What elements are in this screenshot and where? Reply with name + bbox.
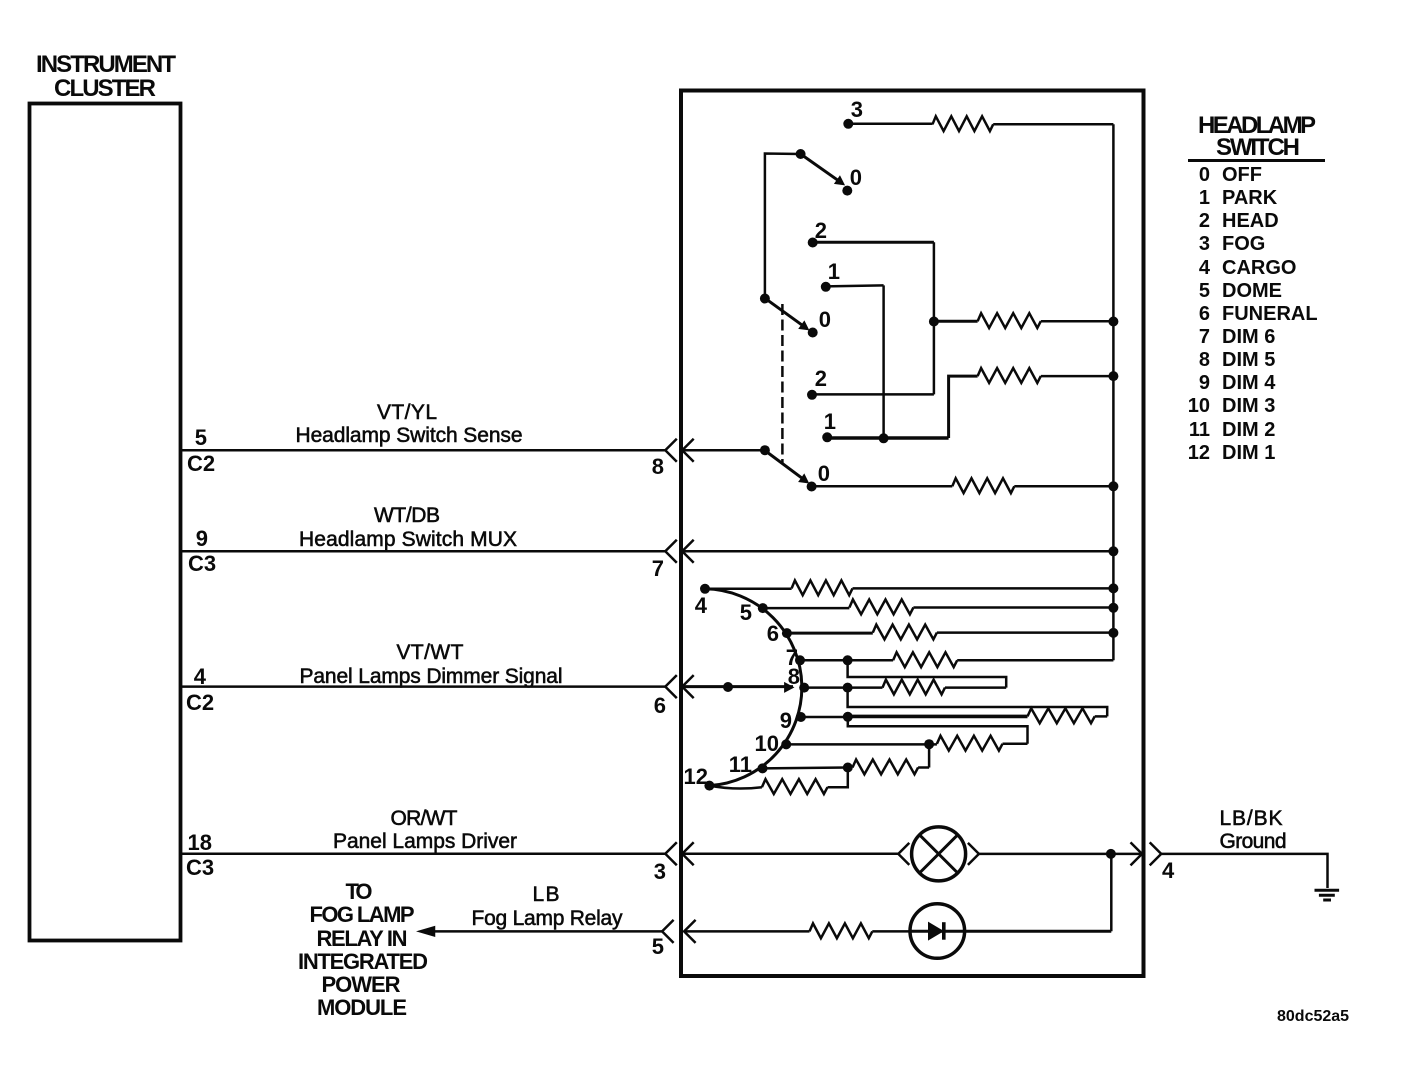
wire R4 to bus — [1014, 481, 1118, 491]
wire R13 right riser to tap11 — [828, 768, 848, 788]
svg-text:0: 0 — [818, 461, 830, 486]
svg-text:C2: C2 — [186, 690, 214, 715]
pin 5 label — [195, 425, 207, 450]
legend switch positions list — [1188, 164, 1318, 464]
switch arm 1 blade — [801, 154, 845, 185]
svg-text:RELAY IN: RELAY IN — [317, 926, 408, 951]
resistor R12 (DIM 2) — [853, 760, 919, 775]
label LB/BK — [1220, 807, 1283, 830]
svg-text:8: 8 — [652, 454, 664, 479]
svg-text:0: 0 — [1199, 164, 1210, 186]
resistor R3 (PARK) — [978, 368, 1041, 383]
contact 0c node — [807, 461, 830, 492]
lamp right chevron — [968, 843, 979, 865]
svg-text:OFF: OFF — [1222, 164, 1262, 186]
svg-text:6: 6 — [767, 621, 779, 646]
svg-text:4: 4 — [695, 593, 708, 618]
svg-text:C3: C3 — [188, 551, 216, 576]
label Headlamp Switch MUX — [299, 528, 517, 551]
svg-text:12: 12 — [1188, 442, 1210, 464]
svg-text:8: 8 — [1199, 349, 1210, 371]
svg-text:80dc52a5: 80dc52a5 — [1277, 1008, 1349, 1025]
svg-text:4: 4 — [1162, 858, 1175, 883]
wire R3 to bus — [1041, 371, 1119, 381]
svg-text:11: 11 — [1189, 419, 1210, 441]
switch arm 2 blade — [765, 298, 809, 330]
label OR/WT — [391, 807, 458, 830]
dimmer tap 6 node — [767, 621, 792, 646]
svg-text:FOG: FOG — [1222, 233, 1265, 255]
resistor R6 (DOME row) — [849, 600, 913, 615]
resistor R9 (DIM 5) — [883, 680, 946, 695]
pin C3 label 2 — [186, 855, 214, 880]
wire R2 to bus — [1041, 317, 1119, 327]
wire R11 right — [1003, 743, 1028, 746]
svg-text:2: 2 — [1199, 210, 1210, 232]
svg-text:1: 1 — [824, 409, 836, 434]
wire tap11 junction — [763, 763, 853, 773]
svg-text:12: 12 — [684, 764, 708, 789]
svg-text:LB/BK: LB/BK — [1220, 807, 1283, 830]
svg-text:0: 0 — [819, 307, 831, 332]
dimmer tap 7 node — [786, 645, 805, 670]
svg-text:1: 1 — [828, 259, 840, 284]
wire tap7 junction — [800, 655, 893, 665]
pin 4 label — [1162, 858, 1175, 883]
wire tap5 to R6 — [763, 607, 850, 610]
svg-text:10: 10 — [755, 731, 779, 756]
return tap7 to R9 right — [848, 660, 1007, 687]
vertical 1a-1b — [882, 285, 885, 438]
svg-text:0: 0 — [850, 165, 862, 190]
pin 5 label (switch) — [652, 934, 664, 959]
svg-text:Headlamp Switch MUX: Headlamp Switch MUX — [299, 528, 517, 551]
svg-text:C3: C3 — [186, 855, 214, 880]
svg-text:VT/YL: VT/YL — [377, 401, 437, 424]
svg-text:TO: TO — [346, 879, 373, 904]
wire tap8 junction — [804, 683, 882, 693]
arrow to fog lamp relay — [419, 927, 435, 936]
wire tap9 to R10 — [848, 715, 1028, 719]
wire tap4 to R5 — [705, 588, 792, 591]
pin 18 label — [188, 830, 212, 855]
dimmer tap 12 node — [684, 764, 715, 791]
svg-text:C2: C2 — [187, 451, 215, 476]
resistor R8 (DIM 6) — [893, 652, 957, 667]
wire VT/WT Panel Lamps Dimmer Signal — [181, 685, 665, 688]
instrument cluster box — [30, 104, 181, 941]
wire LED to lamp junction — [1110, 854, 1113, 931]
figure number — [1277, 1008, 1349, 1025]
riser 1b to R3 — [949, 376, 978, 438]
svg-text:4: 4 — [194, 664, 207, 689]
wire R6 to bus — [913, 603, 1118, 613]
resistor R4 (OFF) — [952, 478, 1014, 493]
instrument cluster label — [36, 51, 176, 102]
headlamp switch box — [681, 91, 1144, 977]
wire tap9 junction — [801, 712, 853, 722]
dimmer tap 5 node — [740, 600, 768, 625]
resistor R10 (DIM 4) — [1028, 708, 1095, 723]
wiper wire to dimmer arc — [682, 682, 793, 692]
connector pin 5 chevrons — [662, 920, 696, 943]
wire OR/WT Panel Lamps Driver — [181, 853, 665, 856]
resistor R7 (FUNERAL row) — [873, 625, 937, 640]
resistor R5 (CARGO row) — [792, 580, 853, 595]
wire pin4 to ground — [1161, 854, 1327, 888]
svg-text:VT/WT: VT/WT — [397, 641, 464, 664]
pin 7 label — [652, 556, 664, 581]
wire contact1a right — [826, 285, 884, 286]
svg-text:7: 7 — [1199, 326, 1210, 348]
mechanical link dashed — [781, 304, 784, 463]
pin C2 label 2 — [186, 690, 214, 715]
return tap8 to R10 right — [848, 688, 1108, 717]
switch arm 1 pivot — [765, 149, 806, 299]
wire tap10 to R11 — [786, 739, 937, 749]
wire R5 to bus — [853, 583, 1119, 593]
dimmer tap 9 node — [780, 708, 806, 733]
legend title HEADLAMP SWITCH — [1188, 112, 1325, 161]
dimmer tap 4 node — [695, 584, 710, 618]
svg-text:5: 5 — [195, 425, 207, 450]
illumination lamp — [912, 827, 966, 881]
svg-text:1: 1 — [1199, 187, 1210, 209]
right bus vertical — [1112, 124, 1115, 660]
wire contact2a right — [813, 241, 934, 244]
contact 1b node — [822, 409, 836, 442]
switch arm 3 blade — [765, 451, 809, 483]
wire WT/DB Headlamp Switch MUX — [181, 550, 665, 553]
svg-text:DIM 2: DIM 2 — [1222, 419, 1275, 441]
pin 6 label — [654, 693, 666, 718]
svg-text:9: 9 — [1199, 372, 1210, 394]
vertical 2a-2b — [933, 242, 936, 394]
wire R1 to bus — [993, 123, 1113, 126]
connector pin 4 chevrons — [1131, 842, 1162, 865]
svg-text:7: 7 — [652, 556, 664, 581]
connector pin 8 chevrons — [665, 439, 693, 462]
resistor R13 (DIM 1) — [762, 779, 828, 794]
pin 9 label — [196, 526, 208, 551]
svg-text:2: 2 — [815, 218, 827, 243]
svg-text:CLUSTER: CLUSTER — [54, 75, 156, 102]
svg-text:6: 6 — [1199, 303, 1210, 325]
wire LB Fog Lamp Relay — [432, 930, 662, 933]
svg-text:DIM 6: DIM 6 — [1222, 326, 1275, 348]
label Fog Lamp Relay — [472, 907, 624, 930]
label VT/WT — [397, 641, 464, 664]
dimmer tap 10 node — [755, 731, 792, 756]
svg-text:SWITCH: SWITCH — [1216, 134, 1300, 161]
svg-text:Headlamp Switch Sense: Headlamp Switch Sense — [296, 424, 523, 447]
svg-text:DIM 5: DIM 5 — [1222, 349, 1275, 371]
ground symbol — [1315, 890, 1340, 900]
wire tap to R2 — [934, 320, 978, 323]
wire R12 right — [918, 766, 929, 769]
label Ground — [1220, 830, 1287, 853]
svg-text:3: 3 — [851, 97, 863, 122]
svg-text:5: 5 — [652, 934, 664, 959]
contact 1a node — [821, 259, 840, 292]
svg-text:Ground: Ground — [1220, 830, 1287, 853]
svg-text:HEAD: HEAD — [1222, 210, 1279, 232]
junction R2 tap — [929, 317, 939, 327]
connector pin 7 chevrons — [665, 540, 693, 563]
connector pin 3 chevrons — [665, 842, 693, 865]
switch arm 3 pivot — [682, 445, 770, 455]
LED indicator — [910, 904, 1111, 959]
svg-text:5: 5 — [1199, 280, 1210, 302]
wire tap12 to R13 — [709, 786, 762, 789]
contact 2b node — [807, 366, 827, 400]
svg-text:INTEGRATED: INTEGRATED — [298, 949, 428, 974]
label LB — [533, 883, 560, 906]
svg-text:2: 2 — [815, 366, 827, 391]
resistor R1 (FOG feed) — [933, 116, 994, 131]
svg-text:DOME: DOME — [1222, 280, 1282, 302]
pin 3 label — [654, 859, 666, 884]
svg-text:Panel Lamps Dimmer Signal: Panel Lamps Dimmer Signal — [300, 665, 563, 688]
svg-text:PARK: PARK — [1222, 187, 1278, 209]
pin 8 label — [652, 454, 664, 479]
label VT/YL — [377, 401, 437, 424]
svg-text:9: 9 — [196, 526, 208, 551]
lamp left chevron — [898, 843, 909, 865]
label Headlamp Switch Sense — [296, 424, 523, 447]
svg-text:8: 8 — [788, 664, 800, 689]
wire R14 to LED — [872, 930, 910, 933]
svg-text:Panel Lamps Driver: Panel Lamps Driver — [333, 830, 517, 853]
svg-text:POWER: POWER — [322, 972, 401, 997]
svg-text:DIM 3: DIM 3 — [1222, 395, 1275, 417]
wire VT/YL Headlamp Switch Sense — [181, 449, 665, 452]
note TO FOG LAMP RELAY IN INTEGRATED POWER MODULE — [298, 879, 428, 1020]
pin C2 label — [187, 451, 215, 476]
svg-text:3: 3 — [1199, 233, 1210, 255]
svg-text:9: 9 — [780, 708, 792, 733]
svg-text:DIM 1: DIM 1 — [1222, 442, 1275, 464]
resistor R14 (fog indicator) — [810, 923, 873, 938]
svg-text:3: 3 — [654, 859, 666, 884]
dimmer tap 11 node — [729, 752, 768, 777]
wire contact2b right — [812, 393, 934, 396]
wire tap6 to R7 — [787, 632, 873, 635]
pin C3 label — [188, 551, 216, 576]
return tap9 to R11 right — [848, 717, 1028, 744]
wire lamp to pin4 — [979, 849, 1142, 859]
svg-text:Fog Lamp Relay: Fog Lamp Relay — [472, 907, 624, 930]
label Panel Lamps Dimmer Signal — [300, 665, 563, 688]
wire contact1b right — [827, 433, 948, 443]
svg-text:CARGO: CARGO — [1222, 257, 1296, 279]
svg-text:OR/WT: OR/WT — [391, 807, 458, 830]
dimmer wiper arc — [705, 589, 802, 786]
resistor R11 (DIM 3) — [937, 736, 1003, 751]
svg-text:5: 5 — [740, 600, 752, 625]
svg-text:MODULE: MODULE — [317, 995, 407, 1020]
svg-text:11: 11 — [729, 752, 752, 777]
wire contact0c to R4 — [812, 485, 953, 488]
connector pin 6 chevrons — [665, 675, 693, 698]
wire R8 to bus corner — [957, 659, 1113, 662]
svg-text:DIM 4: DIM 4 — [1222, 372, 1276, 394]
svg-text:WT/DB: WT/DB — [374, 504, 440, 527]
svg-text:4: 4 — [1199, 257, 1211, 279]
svg-text:LB: LB — [533, 883, 560, 906]
contact 0b node — [808, 307, 831, 338]
wire pin3 to lamp — [682, 853, 898, 856]
svg-text:INSTRUMENT: INSTRUMENT — [36, 51, 176, 78]
svg-text:6: 6 — [654, 693, 666, 718]
label WT/DB — [374, 504, 440, 527]
wire R7 to bus — [937, 628, 1119, 638]
switch arm 2 pivot — [760, 294, 770, 304]
label Panel Lamps Driver — [333, 830, 517, 853]
contact 3 node — [843, 97, 863, 129]
wire R10 right — [1095, 715, 1108, 718]
contact 0a node — [842, 165, 862, 196]
resistor R2 (HEAD) — [978, 313, 1041, 328]
wire R9 right — [945, 686, 1006, 689]
svg-text:FUNERAL: FUNERAL — [1222, 303, 1318, 325]
svg-text:10: 10 — [1188, 395, 1210, 417]
wire MUX to bus — [682, 546, 1118, 556]
wire pin5 to R14 — [684, 930, 809, 933]
svg-text:FOG LAMP: FOG LAMP — [310, 902, 415, 927]
return tap10 to R12 right — [928, 744, 931, 767]
svg-text:18: 18 — [188, 830, 212, 855]
pin 4 label — [194, 664, 207, 689]
dimmer tap 8 node — [788, 664, 809, 693]
wire contact3 to R1 — [848, 123, 932, 126]
contact 2a node — [808, 218, 827, 248]
